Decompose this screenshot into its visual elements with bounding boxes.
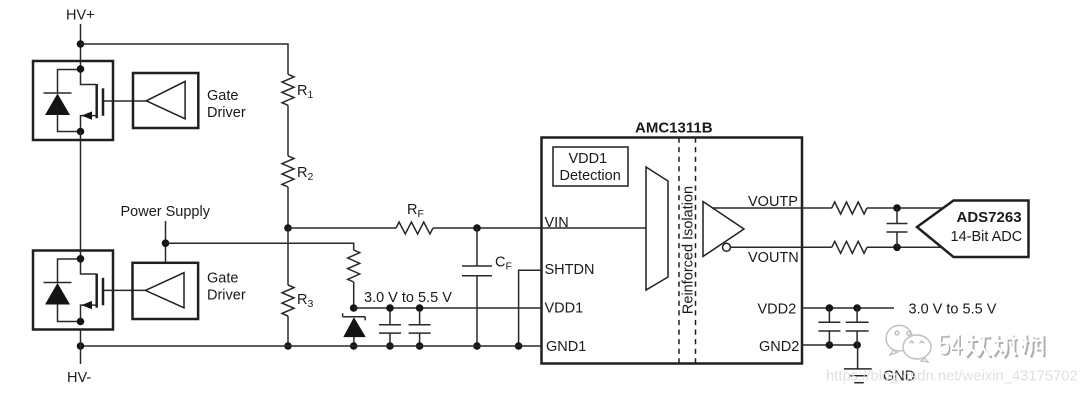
gate driver U3 box: [133, 263, 199, 319]
svg-text:AMC1311B: AMC1311B: [635, 120, 713, 137]
svg-text:Gate: Gate: [207, 270, 238, 286]
capacitor C1: [379, 308, 401, 346]
VDD1 detection box: [553, 147, 628, 186]
junction C6 top: [826, 304, 834, 312]
gate driver U2 box: [133, 73, 198, 128]
svg-text:GND2: GND2: [759, 339, 799, 355]
wire VIN internal: [541, 227, 646, 229]
wire Q2 gate: [104, 289, 146, 291]
junction VIN divider node: [284, 224, 292, 232]
capacitor C7: [846, 308, 869, 345]
input amplifier trapezoid: [646, 167, 668, 290]
svg-text:https://blog.csdn.net/weixin_4: https://blog.csdn.net/weixin_43175702: [826, 369, 1078, 385]
junction zener top: [350, 304, 358, 312]
watermark CJK glyph GONG: [966, 334, 992, 358]
gate driver U2 buffer triangle: [146, 81, 185, 118]
wire VOUTN: [731, 246, 832, 248]
wire R3 top: [287, 228, 289, 285]
wire RF to VIN pin: [433, 227, 541, 229]
junction CF top: [473, 224, 481, 232]
chip U1 AMC1311B box: [542, 138, 803, 364]
junction C6 bottom: [826, 341, 834, 349]
svg-text:3.0 V to 5.5 V: 3.0 V to 5.5 V: [909, 302, 997, 318]
svg-text:3.0 V to 5.5 V: 3.0 V to 5.5 V: [364, 290, 452, 306]
IGBT module Q2 box: [33, 251, 113, 330]
junction C2 bottom: [416, 342, 424, 350]
resistor R6: [832, 241, 867, 253]
watermark wechat icon: [886, 325, 931, 362]
junction C7 top: [853, 304, 861, 312]
ADC U4 ADS7263: [917, 201, 1029, 258]
capacitor C5: [887, 208, 908, 247]
svg-text:GND1: GND1: [546, 339, 586, 355]
junction SHTDN GND1: [515, 342, 523, 350]
wire HV-: [80, 330, 82, 365]
resistor R3: [282, 285, 294, 316]
transistor Q2 (IGBT): [81, 259, 104, 322]
wire GND1 rail: [81, 345, 542, 347]
svg-text:ADS7263: ADS7263: [957, 209, 1022, 226]
resistor R5: [832, 202, 867, 214]
svg-text:VDD2: VDD2: [758, 302, 797, 318]
junction power supply: [162, 239, 170, 247]
svg-text:54: 54: [938, 329, 963, 361]
wire R4 to VDD1: [353, 282, 355, 308]
svg-text:Driver: Driver: [207, 105, 246, 121]
wire R2 to VIN node: [287, 187, 289, 228]
wire VIN node to RF: [288, 227, 396, 229]
junction zener bottom: [350, 342, 358, 350]
wire R6 to ADC: [867, 246, 941, 248]
junction C7 bottom: [853, 341, 861, 349]
junction GND1 left: [77, 342, 85, 350]
wire HV+ to resistor chain: [81, 44, 289, 74]
IGBT module Q1 box: [33, 61, 113, 140]
diode D3: [44, 259, 81, 322]
wire VDD2: [802, 307, 894, 309]
wire VOUTP: [712, 207, 832, 209]
zener diode D2: [343, 313, 366, 346]
svg-text:VOUTN: VOUTN: [748, 250, 799, 266]
svg-text:HV-: HV-: [67, 370, 91, 386]
svg-text:Reinforced Isolation: Reinforced Isolation: [680, 186, 696, 314]
wire Q1 to Q2: [80, 132, 82, 259]
watermark CJK glyph CHENG: [993, 334, 1018, 358]
junction HV+: [77, 40, 85, 48]
svg-text:VDD1: VDD1: [569, 151, 608, 167]
svg-text:Detection: Detection: [560, 168, 621, 184]
wire power supply stub: [165, 221, 167, 263]
junction R3 GND1: [284, 342, 292, 350]
capacitor C2: [409, 308, 431, 346]
junction C2 top: [416, 304, 424, 312]
junction C1 bottom: [386, 342, 394, 350]
svg-text:VOUTP: VOUTP: [748, 194, 798, 210]
wire VDD1: [354, 307, 541, 309]
wire GND2: [802, 344, 857, 346]
junction Q1 collector: [77, 65, 85, 73]
svg-text:14-Bit ADC: 14-Bit ADC: [951, 229, 1023, 245]
resistor RF: [396, 222, 433, 234]
capacitor CF: [462, 228, 492, 346]
wire to ground: [857, 345, 859, 369]
svg-text:HV+: HV+: [66, 8, 95, 24]
svg-text:Power Supply: Power Supply: [121, 204, 211, 220]
svg-text:Driver: Driver: [207, 287, 246, 303]
diode D1: [44, 70, 81, 132]
junction Q2 collector: [77, 255, 85, 263]
wire HV+ down: [80, 24, 82, 61]
resistor R4: [348, 250, 360, 282]
svg-text:SHTDN: SHTDN: [545, 262, 595, 278]
capacitor C6: [818, 308, 840, 345]
junction CF bottom: [473, 342, 481, 350]
wire Q1 collector: [80, 61, 82, 69]
junction C5 bottom: [893, 244, 901, 252]
ground symbol: [844, 369, 872, 383]
wire Q1 gate: [104, 100, 146, 102]
output op-amp U1b triangle: [703, 202, 744, 257]
wire SHTDN to GND1: [519, 270, 541, 346]
watermark CJK glyph SHI: [1021, 334, 1044, 357]
gate driver U3 buffer triangle: [145, 273, 184, 308]
watermark 54 text: [938, 329, 964, 363]
resistor R2: [282, 156, 294, 187]
junction Q2 emitter: [77, 318, 85, 326]
junction C5 top: [893, 204, 901, 212]
isolation barrier dashed lines: [678, 138, 680, 364]
svg-text:VDD1: VDD1: [545, 301, 584, 317]
wire R1 to R2: [287, 105, 289, 156]
wire power supply to R4: [166, 243, 354, 250]
svg-text:Gate: Gate: [207, 88, 238, 104]
wire R3 bottom: [287, 316, 289, 346]
junction Q1 emitter: [77, 128, 85, 136]
wire R5 to ADC: [867, 207, 943, 209]
transistor Q1 (IGBT): [81, 69, 104, 132]
resistor R1: [282, 74, 294, 105]
op-amp inverting bubble: [723, 243, 731, 251]
junction C1 top: [386, 304, 394, 312]
